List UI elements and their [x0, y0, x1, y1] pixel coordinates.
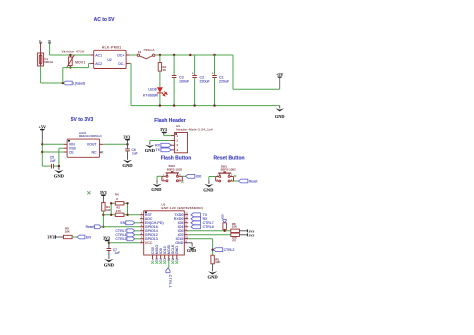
svg-text:3V3: 3V3	[47, 235, 54, 240]
svg-text:CTRL2: CTRL2	[224, 248, 235, 252]
svg-text:GND: GND	[175, 241, 183, 245]
svg-text:470: 470	[116, 209, 121, 213]
svg-text:1K: 1K	[163, 68, 167, 72]
svg-text:L(fused): L(fused)	[73, 81, 85, 85]
svg-text:GND: GND	[54, 173, 65, 178]
svg-text:KT-0603R: KT-0603R	[143, 94, 158, 98]
svg-text:CTRL1: CTRL1	[168, 275, 172, 289]
svg-text:VOUT: VOUT	[87, 143, 98, 147]
svg-text:Flash Header: Flash Header	[154, 118, 185, 124]
svg-text:LED8: LED8	[148, 88, 156, 92]
svg-text:MOV1: MOV1	[75, 60, 85, 64]
svg-text:Reset: Reset	[86, 225, 95, 229]
svg-text:+5V: +5V	[276, 72, 284, 77]
svg-text:ESP-12F (ESP8266MOD): ESP-12F (ESP8266MOD)	[162, 206, 204, 210]
svg-text:10K: 10K	[215, 260, 220, 264]
svg-text:500mA: 500mA	[44, 60, 53, 64]
svg-text:HLK-PM01: HLK-PM01	[102, 46, 122, 50]
svg-text:5V to 3V3: 5V to 3V3	[71, 117, 94, 123]
svg-text:3V3: 3V3	[100, 190, 107, 195]
svg-text:L: L	[39, 39, 41, 43]
svg-text:RX: RX	[155, 143, 161, 147]
svg-text:NC: NC	[91, 151, 97, 155]
svg-text:F2: F2	[138, 50, 142, 54]
svg-text:10K: 10K	[65, 230, 70, 234]
svg-text:+: +	[192, 71, 194, 75]
svg-text:B3FS-1002: B3FS-1002	[167, 167, 183, 171]
svg-text:Reset: Reset	[249, 179, 258, 183]
svg-text:3V3: 3V3	[160, 127, 167, 132]
svg-text:1uF: 1uF	[132, 151, 138, 155]
svg-text:11: 11	[159, 258, 162, 262]
svg-text:1uF: 1uF	[50, 159, 56, 163]
svg-text:GND: GND	[187, 248, 196, 253]
svg-text:IO0: IO0	[220, 214, 224, 219]
svg-text:Flash Button: Flash Button	[161, 156, 192, 162]
svg-text:R4: R4	[115, 193, 119, 197]
svg-text:GND: GND	[203, 187, 214, 192]
svg-text:3V3: 3V3	[249, 233, 255, 237]
svg-text:TX: TX	[156, 148, 161, 152]
svg-text:Header-Male-2.54_1x4: Header-Male-2.54_1x4	[176, 127, 213, 131]
svg-text:GND: GND	[104, 263, 115, 268]
svg-text:DC+: DC+	[117, 53, 124, 57]
svg-text:AC2: AC2	[95, 62, 102, 66]
svg-text:3V3: 3V3	[103, 235, 110, 240]
svg-text:220uF: 220uF	[200, 80, 211, 84]
svg-text:DC-: DC-	[118, 62, 125, 66]
svg-text:U2: U2	[107, 58, 111, 62]
svg-text:220uF: 220uF	[219, 80, 230, 84]
svg-text:VCC: VCC	[145, 241, 153, 245]
svg-text:+: +	[212, 71, 214, 75]
svg-text:AC to 5V: AC to 5V	[94, 17, 116, 23]
svg-text:G: G	[185, 240, 187, 243]
svg-text:Varistor 471K: Varistor 471K	[62, 50, 85, 54]
svg-text:GND: GND	[175, 246, 179, 255]
svg-text:CE: CE	[69, 150, 75, 154]
svg-text:1uF: 1uF	[114, 251, 120, 255]
svg-text:GND: GND	[122, 163, 133, 168]
svg-text:EN: EN	[86, 235, 91, 239]
svg-text:+5V: +5V	[39, 125, 47, 130]
svg-text:100nF: 100nF	[179, 80, 190, 84]
svg-text:IO0: IO0	[196, 175, 202, 179]
svg-text:750mA: 750mA	[143, 48, 155, 52]
svg-text:GND: GND	[151, 187, 162, 192]
svg-text:3V3: 3V3	[123, 134, 130, 139]
svg-text:CTRL6: CTRL6	[203, 225, 214, 229]
svg-text:EN: EN	[121, 221, 126, 225]
svg-text:GND: GND	[145, 148, 156, 153]
svg-text:10K: 10K	[232, 225, 237, 229]
svg-text:AC1: AC1	[95, 53, 102, 57]
svg-text:CTRL3: CTRL3	[115, 237, 126, 241]
svg-text:B3FS-1002: B3FS-1002	[221, 168, 237, 172]
svg-text:ME6211C33M5G-N: ME6211C33M5G-N	[79, 134, 102, 138]
svg-text:GND: GND	[275, 114, 285, 119]
svg-text:10K: 10K	[106, 208, 111, 212]
svg-text:R7: R7	[233, 238, 237, 242]
svg-text:Reset Button: Reset Button	[213, 156, 244, 162]
svg-text:GND: GND	[207, 275, 218, 280]
